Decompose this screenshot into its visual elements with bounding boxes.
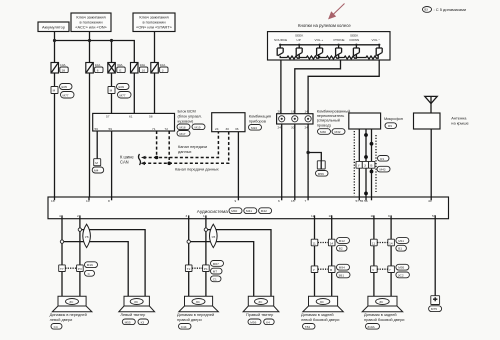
svg-text:У8: У8 bbox=[85, 235, 89, 239]
svg-text:R1: R1 bbox=[380, 157, 384, 161]
svg-text:2: 2 bbox=[77, 214, 79, 218]
svg-text:7: 7 bbox=[305, 199, 307, 203]
data channel label 1 bbox=[178, 144, 207, 154]
svg-text:57: 57 bbox=[432, 214, 436, 218]
ignition switch ACC/ON bbox=[71, 13, 111, 32]
wire F2 to audio unit bbox=[89, 73, 91, 197]
svg-text:VOL −: VOL − bbox=[372, 38, 381, 42]
wire F1 to audio unit bbox=[54, 73, 56, 197]
wire PHONE to spiral bbox=[295, 60, 341, 114]
svg-text:14: 14 bbox=[389, 241, 393, 245]
svg-text:71: 71 bbox=[152, 127, 156, 131]
svg-text:М: М bbox=[53, 89, 56, 93]
RL speaker wire A bbox=[314, 219, 316, 297]
svg-text:М11: М11 bbox=[398, 239, 404, 243]
svg-text:ЗС2: ЗС2 bbox=[398, 273, 404, 277]
ground connector bbox=[429, 296, 442, 312]
FL door speaker bbox=[52, 296, 92, 312]
svg-text:38: 38 bbox=[62, 68, 66, 72]
FL tap circle A bbox=[60, 240, 63, 243]
BCM CAN-H dashed drop bbox=[156, 131, 158, 158]
combination switch label bbox=[317, 108, 351, 134]
svg-text:М56: М56 bbox=[318, 172, 324, 176]
svg-text:М16: М16 bbox=[87, 263, 93, 267]
FR tap circle A bbox=[187, 240, 190, 243]
BCM wire to audio unit bbox=[111, 131, 113, 197]
BCM CAN-L dashed drop bbox=[168, 131, 170, 163]
FL twisted-pair lens bbox=[83, 224, 91, 247]
spiral cable connector bbox=[277, 110, 313, 130]
svg-text:Е: Е bbox=[119, 68, 121, 72]
svg-text:М42: М42 bbox=[261, 209, 267, 213]
mic wire 1 bbox=[358, 129, 360, 197]
svg-text:Кнопки на рулевом колесе: Кнопки на рулевом колесе bbox=[298, 23, 351, 28]
wire battery down bbox=[54, 32, 56, 63]
svg-text:С44: С44 bbox=[181, 325, 187, 329]
audio unit box bbox=[48, 197, 449, 219]
svg-text:М17: М17 bbox=[180, 132, 186, 136]
switch VOL+ bbox=[317, 44, 323, 56]
mic shield dotted bbox=[354, 131, 376, 196]
supply bus bbox=[55, 41, 135, 63]
svg-text:UP: UP bbox=[297, 38, 301, 42]
wire F5 to BCM bbox=[154, 73, 156, 113]
svg-text:59: 59 bbox=[109, 127, 113, 131]
mic wire 3 bbox=[371, 129, 373, 197]
svg-text:40: 40 bbox=[428, 199, 432, 203]
fuse F2 10A bbox=[86, 63, 103, 74]
svg-text:В: В bbox=[370, 164, 372, 168]
svg-text:Аудиосистема: Аудиосистема bbox=[197, 209, 228, 214]
svg-text:С1: С1 bbox=[213, 277, 217, 281]
svg-text:ЗВ1: ЗВ1 bbox=[338, 273, 344, 277]
svg-text:30А: 30А bbox=[117, 63, 123, 67]
resistor R3-4 bbox=[320, 54, 339, 59]
mic inline connector bbox=[356, 156, 390, 172]
svg-text:данных: данных bbox=[178, 149, 192, 154]
svg-text:Левый твитер: Левый твитер bbox=[120, 312, 145, 317]
FL speaker wire B bbox=[79, 219, 81, 297]
svg-text:У: У bbox=[313, 268, 315, 272]
FL speaker label bbox=[50, 312, 87, 329]
svg-text:М4: М4 bbox=[94, 169, 99, 173]
switch SEEK UP bbox=[296, 44, 302, 56]
svg-text:З10А: З10А bbox=[367, 325, 375, 329]
svg-text:9: 9 bbox=[235, 199, 237, 203]
svg-text:правой двери: правой двери bbox=[177, 317, 202, 322]
svg-text:SEEK: SEEK bbox=[295, 34, 304, 38]
svg-text:М55: М55 bbox=[125, 320, 131, 324]
switch SEEK DOWN bbox=[353, 44, 359, 56]
fuse F1 10A bbox=[51, 63, 68, 74]
resistor R4-5 bbox=[339, 54, 357, 59]
svg-text:В1: В1 bbox=[398, 247, 402, 251]
meter wire to audio unit bbox=[237, 132, 239, 197]
svg-text:SOURCE: SOURCE bbox=[274, 38, 287, 42]
junction dot bbox=[88, 39, 91, 42]
spiral wire 2 to audio bbox=[294, 124, 296, 197]
audio bottom pin numbers bbox=[59, 214, 436, 218]
RR door speaker bbox=[362, 296, 403, 312]
FL speaker wire A bbox=[61, 219, 63, 297]
svg-text:М43: М43 bbox=[380, 168, 386, 172]
mic shield dots bbox=[364, 133, 373, 195]
CAN junction dot bbox=[167, 162, 171, 166]
wire F3 to BCM bbox=[111, 73, 113, 113]
spiral wire 1 to audio bbox=[281, 124, 283, 197]
svg-text:10А: 10А bbox=[160, 63, 166, 67]
antenna label bbox=[451, 116, 468, 126]
fusible link F3 bbox=[108, 63, 125, 74]
wire ACC down bbox=[89, 32, 91, 63]
left tweeter bbox=[119, 296, 155, 312]
svg-text:3: 3 bbox=[186, 214, 188, 218]
svg-text:4: 4 bbox=[59, 214, 61, 218]
svg-text:В2: В2 bbox=[339, 247, 343, 251]
svg-text:CAN: CAN bbox=[120, 160, 129, 165]
RR speaker wire B bbox=[390, 219, 392, 297]
svg-text:Микрофон: Микрофон bbox=[384, 116, 403, 121]
wire F4 to BCM bbox=[133, 73, 135, 113]
inline connector on battery wire bbox=[51, 84, 74, 99]
svg-text:36: 36 bbox=[235, 127, 239, 131]
RR speaker wire A bbox=[373, 219, 375, 297]
FL branch to tweeter lower bbox=[62, 242, 128, 297]
svg-text:10А: 10А bbox=[95, 63, 101, 67]
combination meter label bbox=[249, 114, 271, 131]
mic wire 2 bbox=[365, 129, 367, 197]
BCM box bbox=[93, 113, 175, 131]
steering wheel switch box bbox=[268, 32, 391, 60]
svg-text:6: 6 bbox=[97, 68, 99, 72]
svg-text:11: 11 bbox=[313, 241, 316, 245]
svg-text:VOL +: VOL + bbox=[315, 38, 324, 42]
svg-text:R9: R9 bbox=[388, 124, 392, 128]
microphone label bbox=[384, 116, 403, 129]
svg-text:58: 58 bbox=[149, 115, 153, 119]
svg-text:М: М bbox=[95, 161, 98, 165]
left tweeter label bbox=[120, 312, 148, 325]
svg-text:Е05: Е05 bbox=[62, 85, 68, 89]
svg-text:М19: М19 bbox=[195, 125, 201, 129]
switch VOL- bbox=[376, 44, 382, 56]
svg-text:12: 12 bbox=[311, 214, 315, 218]
svg-text:М95: М95 bbox=[398, 266, 404, 270]
ground wire bbox=[434, 219, 436, 296]
svg-text:М77: М77 bbox=[63, 93, 69, 97]
svg-text:57 55 56: 57 55 56 bbox=[356, 199, 368, 203]
RL lower connectors bbox=[311, 264, 350, 278]
svg-text:провод): провод) bbox=[317, 122, 332, 127]
junction dot bbox=[110, 39, 113, 42]
svg-text:С4: С4 bbox=[54, 325, 58, 329]
BCM option wire with connector bbox=[92, 131, 104, 173]
svg-text:М41: М41 bbox=[246, 209, 252, 213]
RL door speaker bbox=[303, 296, 344, 312]
RL upper connectors bbox=[311, 238, 349, 252]
svg-text:К4: К4 bbox=[266, 320, 270, 324]
svg-text:«АСС» или «ON»: «АСС» или «ON» bbox=[75, 25, 106, 30]
combination meter box bbox=[212, 113, 245, 132]
svg-text:левой двери: левой двери bbox=[50, 317, 73, 322]
svg-text:15: 15 bbox=[291, 199, 295, 203]
svg-text:М56: М56 bbox=[250, 320, 256, 324]
FR speaker wire B bbox=[205, 219, 207, 297]
audio top pin numbers bbox=[51, 199, 432, 203]
FR branch to tweeter upper bbox=[206, 230, 271, 297]
svg-text:Т7: Т7 bbox=[60, 267, 64, 271]
svg-text:кузовом): кузовом) bbox=[178, 119, 194, 124]
note 5 speakers bbox=[422, 6, 466, 12]
svg-text:М77: М77 bbox=[120, 93, 126, 97]
FR door speaker bbox=[179, 296, 219, 312]
svg-text:6: 6 bbox=[278, 199, 280, 203]
CAN label bbox=[120, 154, 141, 165]
switch SOURCE bbox=[277, 44, 283, 56]
inline connector on F3 wire bbox=[108, 84, 131, 99]
svg-text:11: 11 bbox=[371, 214, 374, 218]
right tweeter label bbox=[246, 312, 274, 325]
FL inline connectors bbox=[59, 262, 98, 276]
resistor R2-3 bbox=[299, 54, 318, 59]
svg-text:72: 72 bbox=[165, 127, 169, 131]
RL speaker wire B bbox=[331, 219, 333, 297]
FL tap circle B bbox=[78, 228, 81, 231]
svg-text:57: 57 bbox=[106, 115, 110, 119]
svg-text:SEEK: SEEK bbox=[350, 34, 359, 38]
svg-text:24: 24 bbox=[278, 126, 282, 130]
button labels bbox=[274, 34, 380, 43]
svg-text:В: В bbox=[330, 268, 332, 272]
CAN junction dot bbox=[155, 156, 159, 160]
microphone box bbox=[349, 113, 381, 129]
BCM label bbox=[177, 109, 205, 137]
RR speaker label bbox=[364, 312, 404, 329]
svg-text:16: 16 bbox=[291, 110, 295, 114]
FR inline connectors bbox=[185, 261, 223, 282]
wire VOL- to spiral bbox=[308, 60, 379, 114]
CAN-H dashed bus to meter bbox=[141, 132, 218, 160]
svg-text:DOWN: DOWN bbox=[350, 38, 360, 42]
svg-text:10: 10 bbox=[86, 199, 90, 203]
svg-text:правой боковой двери: правой боковой двери bbox=[364, 317, 404, 322]
RR upper connectors bbox=[371, 238, 409, 252]
buttons internal bus bbox=[280, 44, 379, 46]
svg-text:М40: М40 bbox=[231, 209, 237, 213]
fuse F5 10A bbox=[151, 63, 168, 74]
svg-text:61: 61 bbox=[129, 115, 133, 119]
svg-text:левой боковой двери: левой боковой двери bbox=[301, 317, 339, 322]
resistor R1-2 bbox=[280, 54, 299, 59]
svg-text:«ON» или «START»: «ON» или «START» bbox=[136, 25, 172, 30]
svg-text:приборов: приборов bbox=[249, 119, 266, 124]
FR branch to tweeter lower bbox=[189, 242, 254, 297]
red arrow bbox=[329, 4, 345, 19]
svg-text:Т2: Т2 bbox=[187, 267, 191, 271]
svg-text:М7: М7 bbox=[213, 270, 218, 274]
switch PHONE bbox=[336, 44, 342, 56]
svg-text:Т84: Т84 bbox=[305, 325, 311, 329]
FR tap circle B bbox=[204, 228, 207, 231]
option branch connector bbox=[306, 151, 328, 176]
FR speaker wire A bbox=[188, 219, 190, 297]
wire ON/START down bbox=[154, 32, 156, 63]
svg-text:Р1: Р1 bbox=[204, 267, 208, 271]
svg-text:М75: М75 bbox=[431, 307, 437, 311]
svg-text:Правый твитер: Правый твитер bbox=[246, 312, 273, 317]
antenna box bbox=[414, 113, 441, 129]
svg-text:16: 16 bbox=[51, 199, 55, 203]
svg-text:1: 1 bbox=[203, 214, 205, 218]
svg-text:М30: М30 bbox=[320, 130, 326, 134]
svg-text:У8: У8 bbox=[212, 235, 216, 239]
fuse F4 10A bbox=[131, 63, 148, 74]
svg-text:Р3: Р3 bbox=[78, 267, 82, 271]
wire SOURCE to spiral bbox=[280, 60, 282, 114]
svg-text:8: 8 bbox=[108, 199, 110, 203]
junction dot bbox=[53, 39, 56, 42]
resistor R5-6 bbox=[356, 54, 378, 59]
RR lower connectors bbox=[371, 264, 410, 278]
svg-text:М94: М94 bbox=[339, 266, 345, 270]
svg-text:14: 14 bbox=[305, 110, 309, 114]
svg-text:У: У bbox=[358, 164, 360, 168]
svg-text:9: 9 bbox=[388, 214, 390, 218]
antenna symbol bbox=[425, 96, 437, 113]
svg-text:14: 14 bbox=[330, 241, 334, 245]
svg-text:: С 5 динамиками: : С 5 динамиками bbox=[434, 7, 467, 12]
svg-text:М32: М32 bbox=[335, 130, 341, 134]
ignition switch ON/START bbox=[133, 13, 175, 32]
svg-text:56: 56 bbox=[95, 127, 99, 131]
svg-text:10А: 10А bbox=[140, 63, 146, 67]
svg-text:М: М bbox=[110, 89, 113, 93]
svg-text:М18: М18 bbox=[180, 125, 186, 129]
svg-text:Е09: Е09 bbox=[119, 85, 125, 89]
right tweeter bbox=[243, 296, 279, 312]
svg-text:10: 10 bbox=[142, 68, 146, 72]
svg-text:PHONE: PHONE bbox=[334, 38, 345, 42]
RL speaker label bbox=[301, 312, 339, 329]
svg-text:ВЗ: ВЗ bbox=[424, 8, 428, 12]
svg-text:Аккумулятор: Аккумулятор bbox=[42, 25, 65, 30]
svg-text:на крыше: на крыше bbox=[451, 120, 468, 125]
svg-text:М24: М24 bbox=[251, 126, 257, 130]
svg-text:3: 3 bbox=[162, 68, 164, 72]
svg-text:20: 20 bbox=[278, 110, 282, 114]
FR twisted-pair lens bbox=[210, 224, 218, 247]
CAN-L dashed bus to meter bbox=[141, 132, 229, 165]
svg-text:10: 10 bbox=[329, 214, 333, 218]
FL branch to tweeter upper bbox=[80, 230, 145, 297]
svg-text:М67: М67 bbox=[213, 262, 219, 266]
svg-text:11: 11 bbox=[372, 241, 375, 245]
svg-text:М12: М12 bbox=[339, 239, 345, 243]
svg-text:10А: 10А bbox=[60, 63, 66, 67]
svg-text:Канал передачи данных: Канал передачи данных bbox=[175, 166, 219, 171]
svg-text:У: У bbox=[372, 268, 374, 272]
svg-text:30: 30 bbox=[226, 127, 230, 131]
svg-text:З: З bbox=[364, 164, 366, 168]
antenna coax to audio bbox=[430, 129, 432, 197]
svg-text:К3: К3 bbox=[141, 320, 145, 324]
battery bbox=[38, 22, 69, 32]
spiral wire 3 to audio bbox=[307, 124, 309, 197]
svg-text:24: 24 bbox=[215, 127, 219, 131]
FR speaker label bbox=[177, 312, 214, 329]
